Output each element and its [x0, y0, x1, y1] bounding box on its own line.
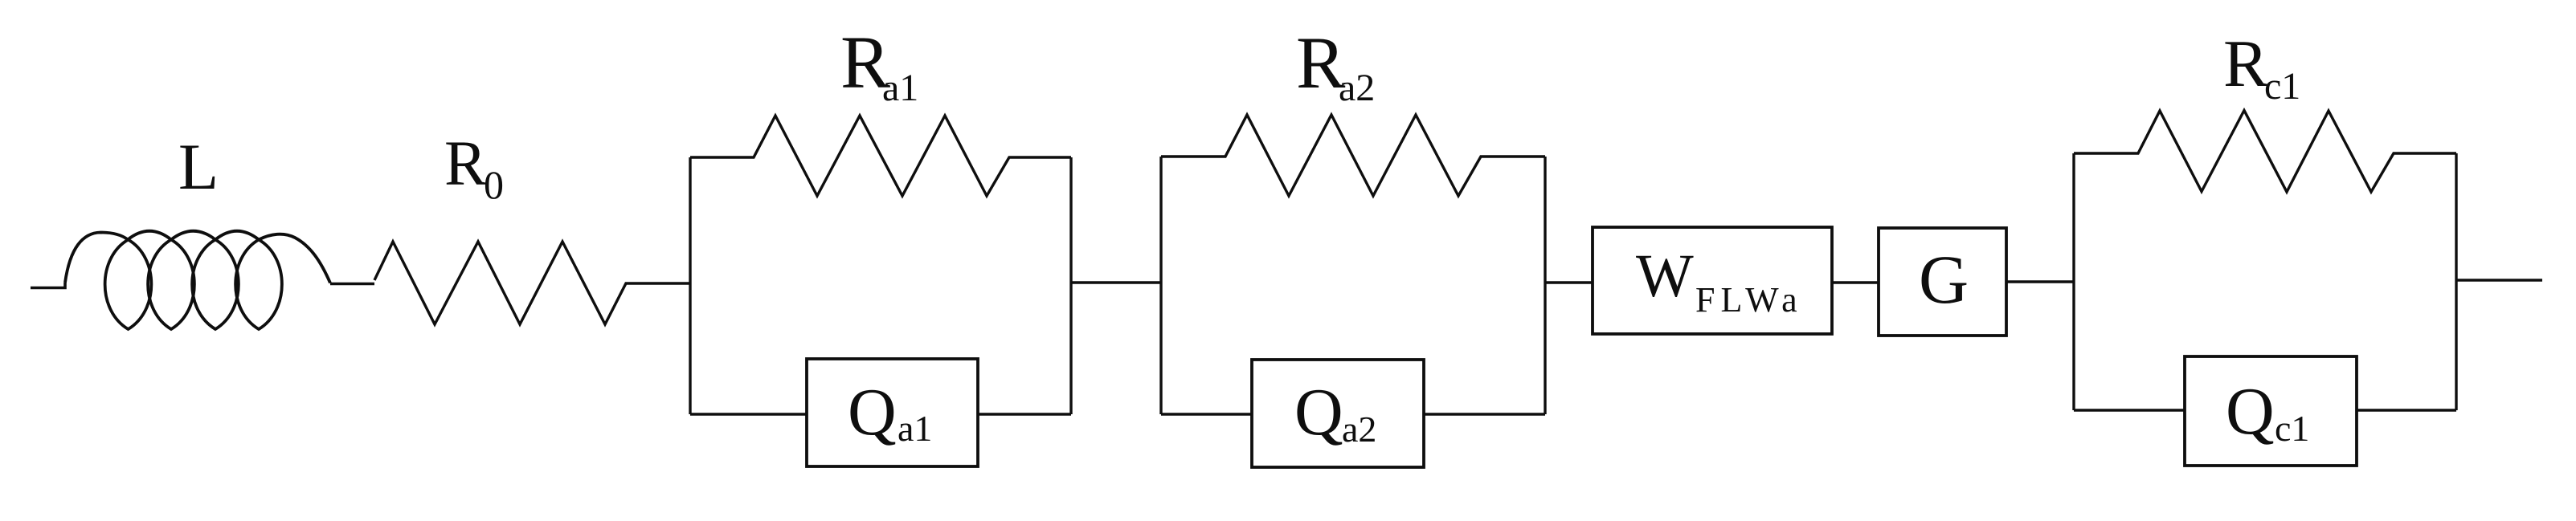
svg-text:W: W — [1636, 242, 1694, 310]
svg-text:L: L — [178, 130, 219, 203]
svg-text:a1: a1 — [898, 408, 932, 449]
svg-text:FLWa: FLWa — [1695, 280, 1803, 320]
svg-text:Q: Q — [1294, 375, 1343, 450]
svg-text:Q: Q — [2226, 374, 2275, 449]
svg-text:c1: c1 — [2275, 408, 2309, 449]
svg-text:c1: c1 — [2264, 65, 2300, 108]
svg-text:R: R — [2223, 26, 2268, 101]
svg-text:R: R — [444, 129, 487, 199]
svg-text:G: G — [1919, 241, 1969, 318]
svg-text:a2: a2 — [1339, 67, 1375, 109]
svg-text:0: 0 — [484, 162, 504, 207]
svg-text:a1: a1 — [882, 67, 918, 109]
svg-text:a2: a2 — [1342, 409, 1376, 450]
svg-text:Q: Q — [848, 375, 897, 450]
